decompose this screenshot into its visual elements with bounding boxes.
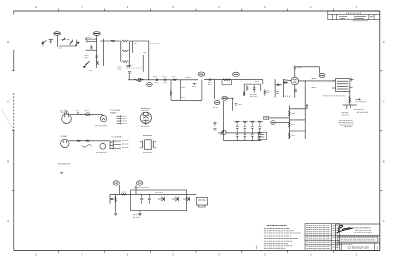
stray mark left of tube table — [255, 246, 257, 250]
wire node to bias box lower — [275, 122, 289, 124]
title block divider 2 — [336, 242, 380, 244]
mic group lower wire — [59, 45, 76, 47]
wire from V1 ellipse down — [96, 35, 98, 67]
power transformer T1 — [140, 140, 156, 150]
bus junction at V1 plate — [147, 78, 150, 81]
cathode tick — [193, 83, 197, 85]
mic volume pot with arrow — [62, 38, 66, 41]
junction to tone branch — [213, 78, 216, 81]
bass potentiometer — [218, 130, 226, 135]
output bus from tube — [299, 80, 336, 82]
V1 plate wire down to bus — [148, 41, 150, 80]
wire from V1a ellipse down — [56, 35, 58, 47]
series resistor R9 — [173, 79, 177, 81]
svg-text:GROUND SW.: GROUND SW. — [58, 164, 70, 166]
screen resistor label — [298, 67, 302, 69]
grid wire down V4b — [282, 80, 284, 98]
phase network labels — [250, 94, 257, 96]
coupling capacitor C4 — [209, 79, 210, 81]
cathode branch vertical wire — [142, 55, 144, 72]
speaker branch vertical wire — [349, 91, 351, 105]
grid branch vertical wire — [102, 39, 104, 66]
tone wire from ellipse — [227, 97, 233, 99]
junction dot mic bus 2 — [67, 38, 70, 41]
bias feed resistor R22 — [243, 121, 247, 123]
filter node ellipse 1 — [113, 181, 119, 185]
node label box 14 — [264, 116, 269, 119]
bus junction after V2 — [203, 78, 206, 81]
to speaker text line 1 — [354, 109, 364, 111]
socket labels — [122, 141, 129, 148]
phase inverter capacitor C5 — [253, 88, 256, 89]
plate top lead — [294, 71, 296, 78]
terminal arrows row A — [117, 115, 122, 124]
mixer ladder left rail — [120, 41, 122, 62]
cathode cap marks on V1 vertical — [95, 56, 98, 60]
svg-text:PILOT LIGHT: PILOT LIGHT — [95, 125, 107, 127]
zone boundary tick marks left and right — [12, 71, 383, 191]
rectifier tube label top — [141, 108, 151, 110]
svg-text:115VAC: 115VAC — [60, 135, 68, 138]
tone capacitor C11 — [235, 104, 238, 105]
main signal bus wire segment 2 — [205, 79, 263, 81]
mixer ladder right rail — [128, 41, 130, 62]
6V6 note lower — [344, 126, 352, 128]
AC socket symbol — [110, 140, 113, 150]
bias resistor value 1 — [292, 113, 296, 115]
tube V2b designation ellipse — [214, 100, 220, 104]
zone boundary tick marks top and bottom — [59, 9, 334, 253]
bias feed resistor R24 — [258, 121, 262, 123]
line resistor R26 — [86, 140, 90, 142]
left rail capacitor Ca — [214, 122, 217, 126]
svg-text:A: A — [7, 219, 9, 223]
grid rail capacitor C13 — [276, 92, 279, 93]
tube V3 designation ellipse — [233, 72, 240, 76]
left rail capacitor Cb — [214, 129, 217, 130]
filter ground drop 2 — [139, 211, 141, 213]
tiny note mid-left — [133, 215, 140, 217]
filter node ellipse 2 — [137, 181, 143, 185]
tone branch vertical — [232, 98, 234, 111]
phase inverter value label — [255, 81, 259, 83]
terminal labels row A — [123, 116, 128, 123]
address line 2 — [354, 232, 373, 234]
sheet number — [376, 246, 378, 250]
jack lower bus wire — [86, 49, 97, 51]
channel-2 jack contact mark — [96, 61, 99, 65]
coupling capacitor C2 — [156, 79, 157, 81]
tube V1 designation ellipse 12AY7 — [93, 32, 100, 36]
output transformer note line 3 — [340, 124, 353, 126]
pilot lamp — [100, 116, 106, 122]
HV ellipse lead — [319, 67, 321, 74]
svg-text:R E V I S I O N S: R E V I S I O N S — [346, 13, 362, 15]
power tube V4 6V6 — [291, 77, 299, 85]
to fuse label — [111, 136, 122, 139]
tone designation ellipse dark — [222, 96, 228, 100]
bleeder bottom wire — [109, 194, 111, 203]
plate resistor R6 rung — [122, 61, 129, 63]
svg-text:D: D — [383, 40, 385, 44]
grid capacitor C7 — [278, 84, 279, 86]
drawing number text — [347, 246, 369, 250]
pilot lamp lead — [101, 114, 104, 115]
cap C3 value label — [163, 76, 167, 78]
tube complement table text rows — [306, 226, 338, 249]
grid wire down V4 — [274, 80, 276, 98]
wire node to bias box upper — [269, 117, 290, 119]
V2 cathode network box — [171, 80, 202, 101]
B+ rail wire — [110, 193, 196, 195]
revision note below table — [353, 20, 368, 22]
drawing frame bottom border — [14, 249, 380, 251]
faint dashed label wire — [150, 43, 160, 45]
cap C2 value label — [153, 76, 157, 78]
wire ladder top to plate drop — [129, 40, 149, 42]
svg-text:B: B — [383, 159, 385, 163]
filter resistor label — [122, 191, 127, 193]
tube V1b designation ellipse — [147, 83, 153, 87]
resistor R9 value label — [172, 76, 176, 78]
bias capacitor C6 — [264, 89, 267, 96]
svg-text:A: A — [383, 219, 385, 223]
to speaker text line 2 — [357, 111, 368, 113]
bias rung 1 — [289, 108, 305, 110]
junction at V4b grid — [282, 78, 285, 81]
rectifier diode arrow 2 — [172, 197, 178, 201]
speaker return wire — [343, 104, 357, 106]
title block cell dividers — [341, 243, 374, 250]
screen rail junction — [304, 79, 307, 82]
HV label lower — [312, 86, 317, 88]
bias rung 2 — [289, 119, 305, 121]
capacitor C4 label — [208, 83, 212, 85]
cap C7 wire — [275, 84, 282, 86]
cathode resistor label — [144, 52, 147, 54]
field coil resistor R15 — [349, 96, 351, 103]
AC plug P2 — [61, 139, 69, 147]
grid resistor R1 — [91, 45, 93, 49]
drawing frame right border — [379, 11, 381, 250]
AC row B wire — [69, 140, 109, 142]
mixing resistor R3 — [111, 40, 115, 42]
bias resistor value 2 — [292, 124, 296, 126]
ground mark below — [60, 172, 63, 173]
revisions table box — [328, 11, 380, 20]
screen rail vertical wire — [304, 81, 306, 139]
fuse label row A — [85, 110, 90, 112]
filter ground drop 1 — [115, 194, 117, 212]
svg-text:C: C — [383, 100, 385, 104]
supply return bottom wire — [224, 140, 262, 142]
115 VAC label row B — [60, 135, 68, 138]
cathode resistor R7 — [126, 65, 131, 67]
standby switch box — [196, 198, 207, 208]
output transformer note line 1 — [339, 120, 354, 122]
grid wire to mixing ladder — [100, 40, 121, 42]
power transformer label top — [143, 135, 152, 137]
HV label upper — [312, 77, 317, 79]
dashed feedback wire left — [283, 95, 291, 97]
mic jack contact with tip dot — [75, 40, 79, 46]
cathode drop to bus wire — [128, 62, 130, 67]
to power trans label A1 — [110, 110, 121, 112]
output transformer note line 2 — [339, 122, 354, 124]
filter drop wire 1 — [118, 185, 120, 194]
ground switch lamp — [100, 143, 106, 149]
junction dot mic bus — [66, 38, 69, 41]
filter box — [131, 190, 187, 211]
wire down to tone stage — [214, 80, 216, 99]
rectifier pin labels — [141, 125, 150, 127]
svg-text:TO 2A FUSE: TO 2A FUSE — [111, 136, 122, 139]
row B below-line text — [96, 151, 107, 153]
power transformer label bottom — [143, 152, 153, 154]
filter row header text — [134, 187, 149, 189]
microphone jack J5 — [42, 40, 47, 46]
date model labels — [339, 243, 353, 245]
left cell text — [336, 246, 340, 248]
output transformer T2 — [332, 79, 350, 92]
main signal bus wire segment 1 — [128, 79, 198, 81]
speaker label text — [355, 101, 366, 103]
filter drop wire 2 — [135, 185, 137, 194]
filter capacitor C22 — [148, 194, 151, 203]
title block outer box — [336, 224, 380, 250]
svg-text:D: D — [7, 40, 9, 44]
tube complement table box — [305, 224, 340, 251]
tube V1a designation ellipse — [54, 32, 61, 36]
speaker arrow — [355, 98, 360, 100]
svg-text:CZ 5E3 ECP 230: CZ 5E3 ECP 230 — [347, 246, 369, 250]
bias resistor R16 — [288, 110, 290, 116]
tone vertical wire — [223, 101, 225, 141]
musical instruments text — [352, 227, 370, 230]
bias feed resistor R23 — [250, 121, 254, 123]
cathode bypass capacitor C1 — [128, 71, 131, 75]
screen resistor R14 — [294, 66, 296, 71]
supply end component box — [258, 132, 267, 139]
bias resistor R17 — [288, 122, 290, 128]
input jack tiny label — [86, 37, 91, 39]
AC plug P1 — [62, 111, 72, 123]
title block divider 1 — [336, 234, 380, 236]
supply rail capacitors upper bank — [236, 124, 261, 133]
fuse F1 — [86, 113, 91, 116]
bias resistor value 3 — [292, 135, 296, 137]
drawing frame top border — [14, 10, 380, 12]
drawing frame left border — [13, 11, 15, 250]
junction at V4 grid — [274, 78, 277, 81]
input jack J1 — [86, 38, 97, 40]
filter capacitor C21 — [140, 194, 143, 203]
revisions table entry row — [339, 16, 373, 18]
mic group label — [59, 47, 62, 49]
filter ground 1 — [114, 214, 117, 216]
supply rail capacitors lower bank — [236, 133, 261, 141]
phase cap lead top — [253, 85, 255, 88]
coupling capacitor C3 — [165, 79, 166, 81]
bus junction at x155 — [154, 78, 157, 81]
filter cap C23 — [111, 198, 114, 199]
phase cap lead bottom — [253, 89, 255, 92]
line cap and curve — [82, 145, 92, 148]
rectifier tube V5 5Y3 — [140, 112, 151, 125]
switch label row A — [76, 110, 79, 112]
tick label — [192, 86, 196, 88]
cathode capacitor C9 — [294, 90, 297, 91]
blocking capacitor C8 — [285, 81, 286, 84]
notice text line 1 — [339, 237, 377, 239]
rectifier tube label top2 — [142, 109, 150, 111]
power switch S1 — [77, 112, 82, 114]
hum balance resistor R11 — [223, 79, 231, 81]
cap C2 voltage label — [155, 82, 159, 84]
phase inverter resistor R13 — [243, 91, 245, 96]
address line 1 — [355, 229, 371, 231]
6V6 tube label right line 1 — [342, 112, 349, 114]
ground switch label — [58, 164, 70, 166]
volume potentiometer VOL-1 on bus — [134, 78, 143, 82]
dashed wire below transformer — [323, 95, 346, 97]
6V6 tube label right line 2 — [342, 114, 350, 116]
transformer secondary pins — [350, 78, 354, 88]
ladder left tiny label — [118, 67, 122, 69]
bus junction at grid box — [179, 78, 182, 81]
filter box inner label — [155, 192, 163, 194]
cathode label — [182, 96, 186, 98]
grid leak resistor R10 — [170, 91, 172, 97]
resistor value label ladder — [134, 43, 137, 45]
scan artifact diagonal — [2, 109, 14, 130]
grid capacitor T-symbol — [49, 39, 53, 43]
bias rail left vertical — [288, 106, 290, 139]
svg-text:C: C — [7, 100, 9, 104]
svg-text:B: B — [7, 159, 9, 163]
bias resistor R18 — [288, 133, 290, 139]
115 VAC label row A — [60, 109, 68, 112]
rectifier diode arrow 3 — [183, 197, 189, 201]
resistor value label above bus — [185, 76, 190, 78]
plate resistor R4 rung — [122, 40, 129, 42]
plate resistor R5 rung — [122, 50, 129, 52]
grid resistor label — [85, 56, 89, 58]
zone numbers top and bottom — [35, 5, 358, 256]
dashed bias feed wire — [234, 121, 264, 123]
phase inverter network box — [244, 84, 261, 96]
AC line wire — [70, 113, 101, 115]
pilot light label — [95, 125, 107, 127]
feedback loop wire — [222, 80, 232, 85]
V4 cathode drop wire — [294, 85, 296, 98]
bus junction at V3 — [239, 78, 242, 81]
svg-text:TRANS.: TRANS. — [110, 111, 117, 114]
line resistor R25 — [77, 140, 81, 142]
bias rung 3 — [289, 130, 305, 132]
input jack J2 — [86, 40, 96, 42]
channel-2 jack label — [89, 69, 92, 71]
bias cap label — [267, 91, 270, 93]
node designation ellipse mid — [271, 121, 276, 125]
cap C3 voltage label — [164, 82, 168, 84]
general notes text block — [264, 226, 301, 249]
phase inverter resistor R12 — [246, 85, 248, 91]
socket wires right — [113, 141, 121, 148]
60 cycle label row A — [61, 112, 66, 114]
revisions table title — [346, 13, 362, 15]
blocking cap wire — [283, 82, 288, 84]
preamp supply bus wire — [225, 132, 261, 134]
tone cap label — [239, 104, 243, 106]
HV node designation ellipse — [319, 73, 325, 77]
plate supply wire top — [295, 66, 320, 68]
notice box — [338, 236, 378, 242]
ladder third vertical wire — [132, 41, 134, 53]
Fender script logo — [337, 225, 353, 233]
filter resistor R27 — [121, 193, 127, 195]
rectifier diode arrow 1 — [158, 197, 164, 201]
electrolytic capacitor C10 plus — [305, 104, 308, 109]
main signal bus wire segment 3 — [283, 79, 291, 82]
tube V2 designation ellipse 12AX7 — [198, 72, 205, 76]
bias feed resistor R21 — [235, 121, 239, 123]
microphone jack J6 — [70, 40, 74, 45]
tone stack label below — [213, 106, 218, 108]
filter ground 2 — [138, 214, 141, 216]
notice text line 2 — [341, 239, 376, 241]
bleeder resistor R28 — [115, 197, 117, 203]
channel-2 input jack J3 — [84, 61, 90, 68]
grid leak label — [182, 87, 186, 89]
to power trans label A2 — [110, 111, 117, 114]
phase inverter takeoff wire — [262, 80, 264, 84]
zone letters left and right — [7, 40, 384, 223]
dashed cathode label line — [126, 67, 141, 69]
cathode drop to bus wire 2 — [128, 75, 130, 80]
speaker jack marks — [347, 105, 351, 110]
